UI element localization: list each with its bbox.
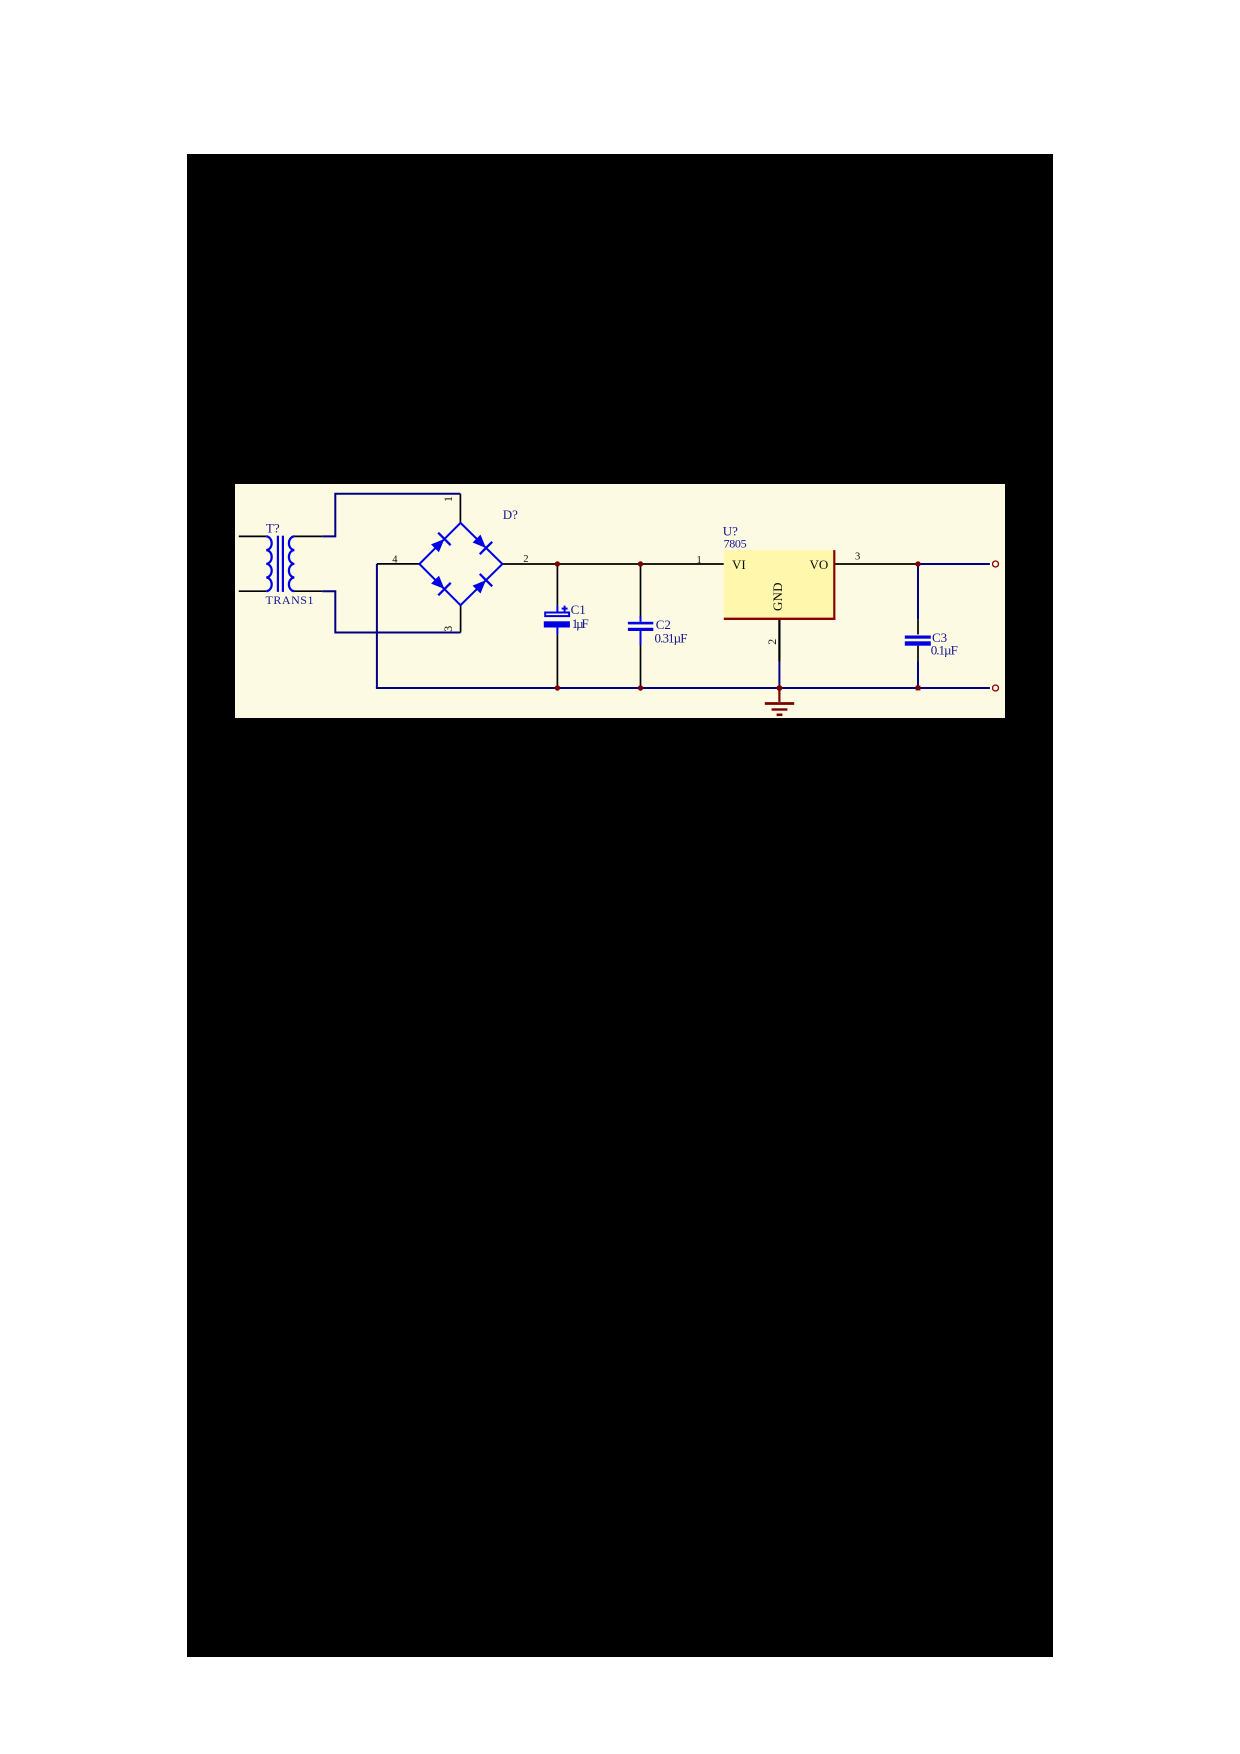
svg-text:1µF: 1µF (572, 616, 589, 631)
svg-text:2: 2 (765, 638, 779, 644)
svg-text:7805: 7805 (724, 536, 747, 550)
svg-text:VI: VI (732, 556, 746, 571)
svg-text:3: 3 (855, 551, 860, 562)
svg-text:0.31µF: 0.31µF (655, 630, 688, 645)
svg-text:GND: GND (770, 582, 785, 611)
svg-text:4: 4 (392, 554, 398, 565)
svg-text:C1: C1 (571, 601, 586, 616)
svg-text:0.1µF: 0.1µF (931, 642, 958, 657)
svg-text:T?: T? (266, 520, 280, 535)
svg-text:D?: D? (503, 507, 518, 522)
svg-text:2: 2 (523, 554, 528, 565)
svg-text:TRANS1: TRANS1 (266, 593, 314, 607)
svg-text:1: 1 (441, 496, 455, 502)
svg-text:VO: VO (810, 556, 829, 571)
svg-text:1: 1 (697, 554, 702, 565)
svg-text:3: 3 (441, 625, 455, 631)
